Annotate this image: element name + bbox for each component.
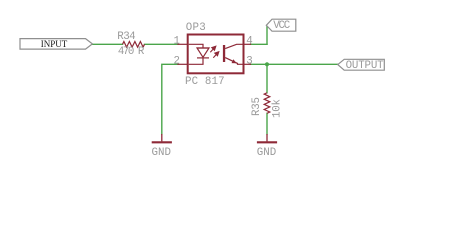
svg-text:1: 1 — [174, 35, 180, 47]
svg-text:470 R: 470 R — [118, 46, 145, 58]
svg-text:OP3: OP3 — [186, 22, 206, 34]
svg-text:PC 817: PC 817 — [185, 76, 225, 88]
svg-text:GND: GND — [152, 147, 172, 159]
svg-text:GND: GND — [257, 147, 277, 159]
svg-text:2: 2 — [174, 55, 180, 67]
svg-text:INPUT: INPUT — [41, 39, 68, 49]
svg-text:10k: 10k — [271, 99, 283, 118]
svg-text:OUTPUT: OUTPUT — [346, 60, 385, 72]
svg-text:R34: R34 — [117, 31, 135, 43]
svg-text:R35: R35 — [251, 97, 263, 116]
svg-text:4: 4 — [246, 35, 252, 47]
svg-text:3: 3 — [246, 55, 252, 67]
svg-text:VCC: VCC — [273, 20, 291, 32]
